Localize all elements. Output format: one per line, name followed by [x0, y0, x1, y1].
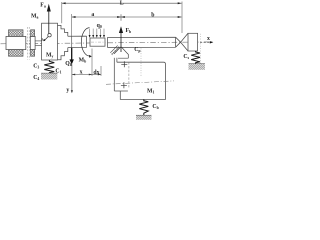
shaft right segment	[108, 37, 176, 47]
top staircase of housing	[58, 25, 68, 36]
reaction arrow Fb	[120, 32, 122, 52]
svg-text:a: a	[91, 12, 94, 18]
ground under spring C1 (hatched)	[41, 72, 57, 74]
spring Cb under block	[139, 99, 148, 115]
motor block 1 body	[6, 36, 26, 49]
svg-text:x: x	[207, 36, 210, 42]
svg-text:L: L	[120, 1, 124, 7]
dotted line at free end	[199, 34, 201, 64]
coupling block 2 bottom cap (hatched)	[31, 50, 35, 57]
coupling block 2 body	[30, 36, 35, 49]
svg-text:y: y	[66, 87, 69, 93]
svg-text:b: b	[151, 12, 154, 18]
witness line at x	[91, 49, 93, 76]
svg-text:x: x	[80, 69, 83, 75]
dimension a	[72, 16, 121, 18]
taper neck (bowtie)	[176, 37, 181, 47]
dimension L	[62, 2, 182, 4]
bracket box (mass My housing)	[42, 23, 58, 60]
shaft left segment	[68, 36, 87, 48]
dashed line inside block	[128, 62, 130, 87]
tool cylinder	[188, 33, 198, 51]
y axis line	[71, 64, 73, 91]
bearing spring Cp dotted line	[140, 49, 142, 78]
bottom staircase of housing	[58, 48, 68, 60]
pivot circle with link	[48, 34, 51, 37]
distributed load q0 comb	[90, 29, 104, 36]
svg-text:za: za	[41, 36, 45, 42]
shear force arrow Q	[71, 48, 73, 61]
witness line at a start	[71, 14, 73, 38]
support B (wedge with hatch)	[114, 47, 128, 59]
witness line at x+dx	[100, 66, 102, 76]
ground under Cb (hatched)	[136, 114, 152, 116]
dimension b	[121, 16, 182, 18]
beam element dx	[90, 38, 105, 46]
witness line right of L	[181, 2, 183, 34]
ground under Cs (hatched)	[189, 63, 206, 65]
headstock block M1	[114, 62, 165, 99]
main centerline (dash-dot axis)	[1, 42, 214, 44]
force arrow Fa	[48, 9, 50, 33]
tick at a-b junction	[120, 14, 122, 20]
motor block 1 bottom cap (hatched)	[9, 50, 24, 57]
moment arc Mb	[81, 28, 90, 56]
bolt cross bottom	[121, 82, 127, 88]
flange plate	[113, 58, 115, 91]
x dimension	[72, 74, 92, 76]
dx dimension	[92, 74, 101, 76]
bolt cross top	[121, 61, 127, 67]
section line at x	[71, 36, 73, 47]
cone	[181, 33, 188, 51]
stub shaft lines into bracket	[35, 40, 42, 42]
dashed separator line pair	[26, 27, 28, 60]
spring C1 (under bracket)	[44, 60, 54, 73]
x axis arrow	[200, 41, 211, 43]
svg-text:dx: dx	[93, 70, 99, 76]
witness line left of L	[61, 2, 63, 23]
spring Cs at free end	[191, 51, 200, 64]
coupling block 2 top cap (hatched)	[31, 30, 35, 37]
block centerline dash-dot	[106, 81, 174, 84]
motor block 1 top cap (hatched)	[9, 30, 24, 37]
